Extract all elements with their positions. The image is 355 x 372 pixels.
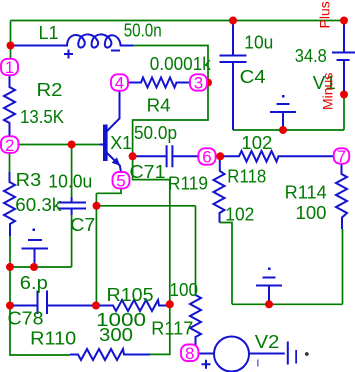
junction R3 bottom [6,263,14,271]
junction ground G3 [265,300,273,308]
svg-text:13.5K: 13.5K [20,107,64,127]
svg-text:1: 1 [5,58,14,77]
ground G1 top dot [33,229,36,232]
svg-text:R4: R4 [147,95,171,115]
svg-text:R105: R105 [107,285,154,305]
svg-text:Minus: Minus [320,73,336,110]
transistor X1 base bar [103,125,108,162]
svg-text:L1: L1 [39,23,59,43]
svg-text:60.3k: 60.3k [15,195,62,215]
svg-text:100: 100 [170,280,199,300]
svg-text:3: 3 [194,74,203,93]
junction R105 right [166,300,174,308]
junction node3 right [204,79,212,87]
wire L1 right to node3 column [133,46,208,157]
svg-text:5: 5 [116,171,125,190]
resistor R4 [128,78,191,88]
resistor R105 [96,300,170,311]
svg-text:C4: C4 [240,67,266,87]
node 2 [1,136,18,153]
wire mid horizontal y207 [96,205,195,207]
transistor X1 leads [100,144,103,146]
junction R105 left [92,302,100,310]
node 3 [190,74,207,90]
node 4 [111,74,128,90]
wire R119 bottom jog [220,223,233,305]
svg-text:7: 7 [337,147,346,166]
V2 source circle [214,337,249,372]
ground G1 stem [22,240,49,267]
wire C71-left down to R105 junction [133,156,170,304]
wire top rail [11,20,345,22]
wire mid vertical x96 [95,193,97,305]
wire R114 bottom [342,229,344,304]
svg-text:1000: 1000 [96,310,146,330]
svg-text:102: 102 [241,133,272,153]
terminal dot [305,352,309,356]
capacitor C7 [58,197,87,215]
svg-text:Plus: Plus [317,1,333,28]
svg-text:102: 102 [225,205,254,225]
capacitor C4 [220,21,247,131]
svg-text:8: 8 [185,344,194,363]
wire V1 minus down [343,95,345,131]
junction C4 top [229,17,237,25]
svg-text:6.p: 6.p [20,273,48,293]
wire R105 right down to R110 [150,304,170,354]
svg-text:6: 6 [202,148,211,167]
ground G2 stem [270,104,296,130]
resistor R2 [4,75,15,136]
svg-text:C71: C71 [130,162,166,182]
wire left rail upper [10,21,12,60]
wire R3 top [9,153,11,173]
junction C78 left [6,302,14,310]
wire node2 to base [18,144,101,146]
svg-text:C7: C7 [70,215,95,235]
svg-text:R2: R2 [37,80,63,100]
wire C4 V1 bottom rail [233,129,344,131]
resistor R118 [220,151,333,162]
ground G3 stem [256,278,282,305]
junction ground G1 [30,263,38,271]
wire C7 branch bottom [71,215,73,267]
svg-text:R117: R117 [151,319,193,339]
transistor X1 emitter arrow [112,157,121,165]
wire node5 down-left [96,189,121,194]
svg-text:V2: V2 [255,332,279,352]
svg-text:R118: R118 [227,167,266,187]
junction V1 plus [340,17,348,25]
resistor R114 [336,164,347,229]
V2 wires [198,353,214,355]
node 8 [181,345,198,362]
resistor R110 [70,349,150,360]
svg-text:C78: C78 [8,309,44,329]
resistor R3 [4,172,15,236]
svg-text:R3: R3 [16,170,42,190]
junction V1 minus [340,91,348,99]
svg-text:50.0p: 50.0p [134,123,177,143]
wire bottom-left rail [10,267,70,355]
battery V1 [332,21,355,95]
svg-text:10.0u: 10.0u [48,172,92,192]
polarity plus L1 [64,50,73,59]
capacitor C71 [133,145,198,167]
wire bottom-left horiz [10,266,72,268]
junction node5 branch [93,202,101,210]
ground G2 top dot [282,95,285,98]
svg-text:2: 2 [5,136,14,155]
svg-text:X1: X1 [110,133,132,153]
wire C7 branch top [71,145,73,198]
node 6 [198,148,215,164]
junction C71 left [129,152,137,160]
resistor R117 [190,295,201,346]
node 7 [334,148,349,163]
resistor R119 [214,157,225,223]
capacitor C78 [10,291,96,315]
junction R118 R119 [216,152,224,160]
ground G3 top dot [268,268,271,271]
polarity plus V2 [202,360,211,369]
node 1 [1,59,18,75]
wire R117 column [195,206,197,295]
svg-text:R119: R119 [168,174,208,194]
junction ground G2 [279,126,287,134]
node 5 [113,172,130,188]
svg-text:R114: R114 [285,183,327,203]
svg-text:4: 4 [115,74,124,93]
svg-text:34.8: 34.8 [295,46,327,66]
svg-text:0.0001k: 0.0001k [150,54,212,74]
polarity minus L1 [111,50,120,52]
svg-text:50.0n: 50.0n [124,21,162,41]
svg-text:I: I [294,348,299,369]
wire bottom mid rail [232,303,343,305]
svg-text:10u: 10u [244,32,273,52]
junction L1 left [7,42,15,50]
svg-text:100: 100 [296,203,327,223]
svg-text:I: I [257,359,260,370]
wire R3 bottom [9,236,11,267]
junction C7 top [68,141,76,149]
inductor L1 [11,34,134,47]
svg-text:R110: R110 [30,328,76,348]
